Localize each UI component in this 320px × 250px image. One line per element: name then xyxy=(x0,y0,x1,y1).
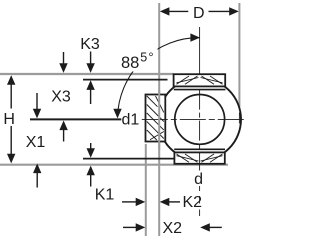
svg-text:88: 88 xyxy=(121,54,139,72)
svg-text:d: d xyxy=(194,171,203,188)
svg-text:X1: X1 xyxy=(26,134,46,151)
svg-text:K2: K2 xyxy=(183,194,203,211)
svg-text:X2: X2 xyxy=(163,220,183,237)
svg-text:X3: X3 xyxy=(51,88,71,105)
svg-text:5: 5 xyxy=(140,50,147,64)
svg-text:H: H xyxy=(3,111,15,128)
svg-text:°: ° xyxy=(148,50,153,65)
svg-text:K3: K3 xyxy=(80,36,100,53)
svg-text:d1: d1 xyxy=(122,112,140,129)
svg-text:K1: K1 xyxy=(95,187,115,204)
svg-text:D: D xyxy=(193,5,205,22)
